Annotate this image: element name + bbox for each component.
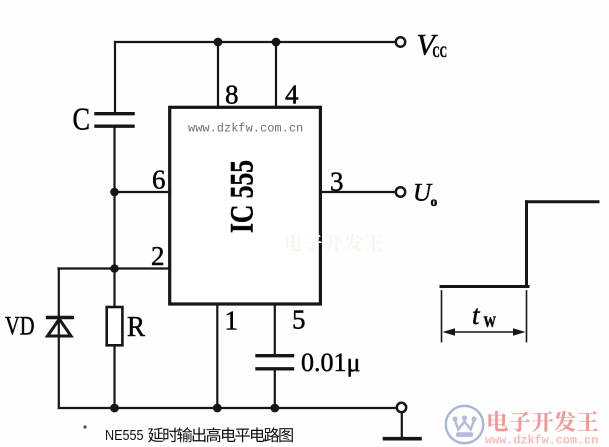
svg-text:W: W bbox=[484, 314, 497, 331]
svg-text:o: o bbox=[431, 194, 438, 209]
svg-text:CC: CC bbox=[433, 44, 448, 61]
wire capacitor C to node A bbox=[113, 127, 115, 192]
diode VD bbox=[46, 318, 74, 337]
capacitor C2 0.01u bbox=[257, 354, 293, 357]
svg-text:4: 4 bbox=[285, 80, 299, 110]
wire pin 2 bbox=[59, 267, 170, 269]
svg-text:5: 5 bbox=[292, 305, 306, 335]
logo circle bbox=[446, 406, 483, 443]
ground symbol bbox=[401, 413, 403, 438]
resistor R bbox=[107, 307, 123, 345]
wire resistor R to bottom rail bbox=[113, 345, 115, 408]
wire node B down through diode VD to bottom rail bbox=[58, 269, 60, 409]
svg-text:6: 6 bbox=[152, 165, 166, 195]
svg-text:NE555: NE555 bbox=[105, 427, 144, 444]
svg-text:IC 555: IC 555 bbox=[225, 160, 261, 233]
junction dot pin 4 / rail bbox=[272, 38, 281, 47]
svg-text:www.dzkfw.com.cn: www.dzkfw.com.cn bbox=[188, 122, 303, 136]
wire pin 1 vertical bbox=[216, 305, 218, 408]
wire pin 3 output bbox=[321, 191, 396, 193]
wire pin 5 vertical bbox=[274, 305, 276, 355]
svg-text:R: R bbox=[127, 311, 146, 343]
svg-text:www.dzkfw.com.cn: www.dzkfw.com.cn bbox=[485, 434, 598, 447]
svg-text:8: 8 bbox=[225, 80, 239, 110]
faint watermark bbox=[286, 234, 382, 252]
terminal Vcc bbox=[396, 37, 405, 46]
wire top supply rail bbox=[115, 41, 396, 43]
svg-text:1: 1 bbox=[225, 306, 239, 336]
svg-text:2: 2 bbox=[151, 241, 165, 271]
logo text bbox=[488, 411, 598, 432]
logo W mark bbox=[452, 415, 476, 437]
dimension extension line right bbox=[526, 291, 528, 342]
node A junction (pin 6 tap) bbox=[110, 188, 119, 197]
wire pin 6 bbox=[115, 191, 170, 193]
capacitor C bbox=[96, 112, 133, 115]
terminal Uo bbox=[396, 187, 405, 196]
wire node B to resistor R bbox=[113, 269, 115, 308]
waveform high level line bbox=[527, 200, 599, 203]
terminal ground bbox=[397, 403, 406, 412]
node B junction (pin 2 tap) bbox=[110, 264, 119, 273]
svg-text:C: C bbox=[73, 101, 91, 137]
junction dot R / rail bbox=[110, 404, 119, 413]
op IC 555 body U1 bbox=[170, 107, 321, 304]
dimension arrow tw bbox=[443, 328, 526, 336]
junction dot pin 8 / rail bbox=[214, 38, 223, 47]
junction dot C2 / rail bbox=[270, 404, 279, 413]
wire pin 8 vertical bbox=[217, 42, 219, 108]
wire pin 4 vertical bbox=[275, 42, 277, 108]
wire node A to node B bbox=[113, 192, 115, 269]
waveform low level line bbox=[441, 285, 528, 288]
caption dot bbox=[83, 425, 86, 428]
waveform rising step bbox=[525, 202, 528, 287]
svg-text:3: 3 bbox=[330, 167, 344, 197]
svg-text:VD: VD bbox=[5, 312, 35, 341]
wire left vertical to capacitor C bbox=[114, 42, 116, 113]
dimension extension line left bbox=[441, 291, 443, 342]
wire bottom ground rail bbox=[59, 407, 396, 409]
junction dot pin 1 / rail bbox=[213, 404, 222, 413]
wire capacitor C2 to bottom rail bbox=[274, 370, 276, 409]
svg-text:0.01μ: 0.01μ bbox=[301, 348, 360, 377]
